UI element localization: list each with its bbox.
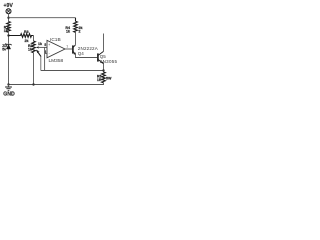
wiper arrowhead xyxy=(36,46,39,48)
svg-text:1R: 1R xyxy=(97,78,102,82)
op-amp U1 IC1B LM358 xyxy=(44,37,68,64)
wire R1 to node xyxy=(8,32,10,44)
svg-text:LM358: LM358 xyxy=(49,58,64,64)
resistor R1 xyxy=(4,22,11,34)
svg-text:2k: 2k xyxy=(25,39,29,43)
node ground left xyxy=(7,83,9,85)
wire Q4 emitter to Q5 base xyxy=(76,55,98,58)
svg-text:5W: 5W xyxy=(106,76,112,80)
wire top rail xyxy=(9,17,76,19)
+9V supply terminal xyxy=(4,3,14,14)
wire op-amp output to Q4 base xyxy=(65,48,72,50)
svg-text:1k: 1k xyxy=(4,29,8,33)
svg-text:1k: 1k xyxy=(66,29,70,33)
svg-text:5v: 5v xyxy=(2,47,6,51)
svg-text:1k: 1k xyxy=(28,47,32,51)
wire Q5 emitter down xyxy=(103,64,105,72)
zener ZD1 xyxy=(2,43,11,51)
svg-text:-: - xyxy=(49,52,51,56)
node sense junction xyxy=(102,69,104,71)
svg-text:R3: R3 xyxy=(24,30,29,34)
resistor R4 xyxy=(65,18,82,34)
transistor Q4 2N2222A xyxy=(73,45,98,56)
wire pot to ground rail xyxy=(33,53,35,85)
node reference junction xyxy=(7,34,9,36)
svg-text:Q4: Q4 xyxy=(78,51,85,56)
resistor R5 xyxy=(97,72,112,83)
wire Q4 collector up xyxy=(75,32,77,45)
node ground pot xyxy=(32,83,34,85)
svg-text:2N3055: 2N3055 xyxy=(100,59,118,64)
svg-text:GND: GND xyxy=(3,91,15,97)
wire R3 to pot xyxy=(33,36,35,42)
svg-text:5: 5 xyxy=(44,43,46,47)
resistor R3 xyxy=(9,30,34,43)
pot adjust diagonal arrow xyxy=(38,52,42,57)
svg-text:7: 7 xyxy=(66,45,68,49)
wire wiper tail down to feedback xyxy=(40,57,42,71)
wire Q5 collector up xyxy=(103,34,105,52)
wire pot wiper to op-amp + input xyxy=(38,46,48,48)
node top-left junction xyxy=(7,17,9,19)
ground xyxy=(3,85,15,98)
wire +9V down xyxy=(8,14,10,22)
svg-text:1k: 1k xyxy=(38,42,42,46)
svg-text:2: 2 xyxy=(79,29,81,33)
wire zener to ground rail xyxy=(8,49,10,85)
transistor Q5 2N3055 xyxy=(98,51,118,64)
wire inverting input down xyxy=(45,47,47,70)
svg-text:IC1B: IC1B xyxy=(50,37,61,43)
potentiometer VR1 1k xyxy=(28,41,42,53)
wire feedback xyxy=(41,70,104,72)
wire bottom rail xyxy=(9,83,104,85)
svg-text:+: + xyxy=(48,43,50,47)
